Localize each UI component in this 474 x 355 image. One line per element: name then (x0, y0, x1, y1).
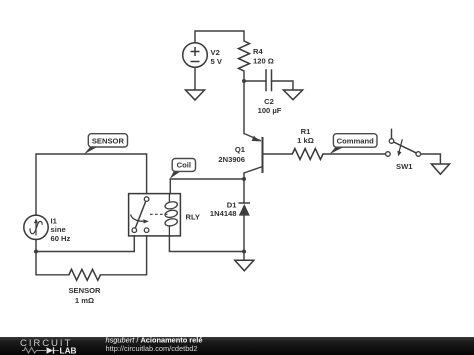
ground under D1 (235, 260, 254, 271)
resistor R1 (292, 149, 323, 160)
wire relay coil bottom to node D (169, 236, 244, 252)
svg-text:RLY: RLY (186, 213, 201, 222)
wire R4 bottom to Q1 emitter (243, 71, 245, 134)
svg-text:1 kΩ: 1 kΩ (297, 136, 314, 145)
junction node C (34, 250, 38, 254)
wire I1 bottom to sensor resistor (36, 239, 69, 274)
ground right of C2 (283, 90, 302, 100)
relay coil inductor (164, 194, 178, 236)
label R4 value (253, 47, 274, 66)
resistor SENSOR 1mohm (69, 269, 101, 280)
svg-text:60 Hz: 60 Hz (51, 234, 71, 243)
transistor Q1 (244, 134, 263, 174)
svg-text:LAB: LAB (60, 346, 77, 355)
svg-text:D1: D1 (227, 200, 237, 209)
svg-text:R1: R1 (301, 127, 311, 136)
wire SW1 top throw stub (391, 129, 393, 138)
svg-text:R4: R4 (253, 47, 263, 56)
label SW1 (396, 162, 413, 171)
wire SW1 to ground (421, 154, 441, 164)
svg-text:SW1: SW1 (396, 162, 413, 171)
label I1 value (51, 217, 71, 243)
wire sensor rail I1 to relay common (36, 154, 147, 215)
current source I1 (24, 215, 48, 239)
svg-text:100 µF: 100 µF (258, 106, 282, 115)
ground under V2 (186, 90, 205, 100)
wire R1 to SW1 (323, 153, 386, 155)
svg-text:120 Ω: 120 Ω (253, 57, 274, 66)
wire V2 to ground (194, 67, 196, 90)
flag SENSOR (84, 134, 128, 155)
junction node A (242, 79, 246, 83)
svg-text:5 V: 5 V (211, 57, 223, 66)
relay RLY box (129, 194, 181, 236)
svg-text:Q1: Q1 (235, 145, 246, 154)
logo CIRCUIT LAB (20, 338, 77, 355)
relay link dashed (150, 213, 168, 215)
ground right of SW1 (431, 164, 449, 174)
switch SW1 terminals (386, 139, 421, 157)
voltage source V2 (183, 43, 208, 68)
label R1 value (297, 127, 314, 145)
capacitor C2 (266, 69, 272, 91)
wire Q1 base to R1 (263, 153, 292, 155)
svg-text:1 mΩ: 1 mΩ (75, 296, 94, 305)
diode D1 (239, 203, 251, 216)
svg-text:http://circuitlab.com/cdetbd2: http://circuitlab.com/cdetbd2 (106, 344, 198, 353)
wire collector node to relay coil top (170, 179, 244, 194)
svg-text:2N3906: 2N3906 (218, 155, 245, 164)
footer credits (106, 336, 203, 353)
label V2 value (211, 48, 223, 66)
svg-text:SENSOR: SENSOR (92, 136, 125, 145)
relay switch blade (135, 202, 145, 228)
junction node B collector (242, 177, 246, 181)
relay terminal pins (132, 197, 149, 233)
flag Command (330, 134, 378, 155)
wire top rail V2 to R4 (195, 31, 244, 43)
wire C2 to ground (272, 81, 294, 90)
switch SW1 (394, 139, 417, 156)
footer bar (0, 337, 474, 355)
wire D1 anode to ground (243, 216, 245, 261)
wire sensor resistor to relay terminal (101, 236, 147, 275)
wire node to C2 (244, 80, 266, 82)
resistor R4 (239, 41, 250, 71)
junction node D (242, 250, 246, 254)
svg-text:V2: V2 (211, 48, 220, 57)
wire node B to relay terminal (36, 236, 134, 252)
label RLY (186, 213, 201, 222)
label Q1 value (218, 145, 245, 164)
wire Q1 collector to D1 (243, 173, 245, 203)
label D1 value (210, 200, 237, 218)
relay actuator arrow (131, 215, 149, 224)
flag Coil (170, 159, 196, 179)
svg-text:SENSOR: SENSOR (68, 286, 101, 295)
svg-text:Command: Command (337, 136, 374, 145)
svg-text:Coil: Coil (177, 161, 191, 170)
label SENSOR resistor value (68, 286, 101, 305)
svg-text:1N4148: 1N4148 (210, 209, 237, 218)
label C2 value (258, 97, 282, 115)
